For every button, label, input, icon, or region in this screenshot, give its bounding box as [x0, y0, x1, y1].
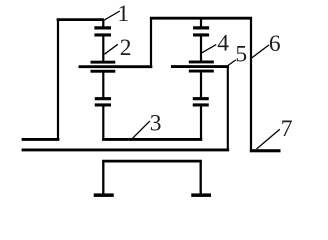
shaft II top stub	[200, 18, 202, 28]
svg-text:2: 2	[120, 35, 132, 61]
svg-text:7: 7	[281, 116, 293, 142]
ring frame 6 left vertical wire	[150, 18, 152, 66]
frame left bracket bottom wire	[22, 138, 60, 141]
shaft II lower section	[200, 105, 202, 139]
ring frame 6 top wire	[150, 17, 252, 20]
svg-text:6: 6	[269, 31, 281, 57]
leader 7	[257, 129, 280, 149]
shaft II mid section	[200, 71, 202, 99]
shaft I lower section	[102, 105, 104, 139]
frame left bracket top wire	[57, 18, 104, 21]
shaft I lower gear lower bar	[95, 103, 111, 106]
output flange bar 7	[250, 149, 281, 152]
ring frame 6 right vertical wire	[250, 18, 252, 151]
fixed frame U horizontal	[102, 160, 202, 163]
leader 4	[202, 45, 216, 53]
carrier bar 3	[102, 138, 202, 141]
gear 4 lower bar	[193, 33, 209, 36]
svg-text:4: 4	[217, 31, 229, 57]
leader 6	[252, 45, 269, 58]
gear 5 mesh rack line	[171, 65, 229, 68]
leader 1	[103, 11, 119, 21]
shaft I lower gear upper bar	[95, 97, 111, 100]
support foot right	[191, 193, 211, 197]
long output shaft line	[22, 148, 230, 151]
gear 5 upper bar	[189, 61, 214, 64]
svg-text:1: 1	[117, 1, 129, 27]
frame left bracket vertical wire	[57, 20, 59, 140]
shaft II lower gear lower bar	[193, 103, 209, 106]
leader 2	[105, 44, 118, 54]
leader 3	[132, 121, 150, 139]
internal gear 5 vertical link	[227, 67, 229, 150]
gear 1 lower bar	[94, 33, 111, 36]
gear 5 lower bar	[189, 70, 214, 73]
gear 1 upper bar	[94, 26, 111, 29]
fixed frame U right vertical	[200, 161, 202, 194]
svg-text:5: 5	[235, 42, 247, 68]
gear 2 lower bar	[91, 70, 116, 73]
svg-text:3: 3	[150, 111, 162, 137]
leader 5	[228, 60, 236, 66]
gear 4 upper bar	[193, 26, 209, 29]
shaft II lower gear upper bar	[193, 97, 209, 100]
gear 2 upper bar	[91, 61, 116, 64]
shaft II upper section	[200, 35, 202, 62]
shaft I top stub	[102, 20, 104, 28]
gear 2 mesh rack line	[79, 65, 153, 68]
shaft I upper section	[102, 35, 104, 62]
shaft I mid section	[102, 71, 104, 98]
support foot left	[94, 193, 114, 197]
fixed frame U left vertical	[102, 161, 104, 194]
